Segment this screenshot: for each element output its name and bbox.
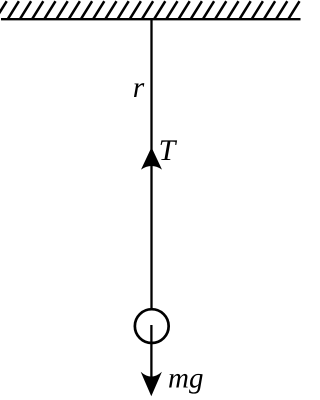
tension arrowhead T [141, 147, 162, 169]
svg-text:mg: mg [168, 363, 203, 395]
svg-text:r: r [133, 72, 145, 104]
ceiling line [1, 18, 301, 20]
weight arrowhead [141, 372, 162, 397]
ball [135, 309, 169, 343]
svg-text:T: T [159, 134, 178, 167]
weight arrow shaft [150, 325, 152, 388]
string (wire) from ceiling to ball [150, 19, 152, 308]
ceiling hatching [0, 1, 299, 19]
